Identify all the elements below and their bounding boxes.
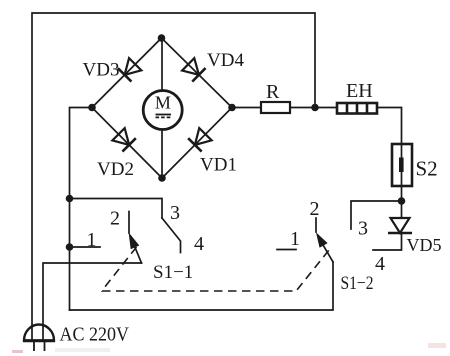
wire S1-1 terminal 3 feed — [70, 199, 163, 219]
switch S1-1 terminal 2 stub — [128, 212, 130, 234]
svg-text:M: M — [155, 93, 171, 113]
diode VD1 — [188, 128, 212, 152]
resistor R — [261, 102, 290, 113]
motor M1 circle — [143, 91, 182, 130]
motor underline dashed — [156, 116, 172, 118]
svg-text:VD3: VD3 — [83, 60, 120, 81]
wire bridge edge bottom-left — [92, 108, 162, 179]
plug prong right — [44, 341, 46, 351]
thermal switch S2 — [392, 144, 412, 186]
switch S1-1 arrowhead — [129, 234, 138, 249]
wire bridge edge top-right — [162, 38, 233, 108]
wire EH to right corner and down to S2 — [377, 108, 402, 145]
wire S1-2 terminal 3 branch — [351, 201, 402, 229]
svg-text:R: R — [266, 81, 280, 103]
svg-text:VD5: VD5 — [407, 235, 442, 255]
wire S1-1 terminal 1 stub — [70, 246, 101, 248]
svg-text:VD1: VD1 — [200, 155, 237, 176]
node left of bridge — [88, 104, 96, 112]
diode VD5 — [388, 218, 412, 233]
node bottom of bridge — [158, 174, 166, 182]
svg-text:4: 4 — [194, 233, 204, 255]
svg-text:3: 3 — [170, 202, 180, 224]
switch S1-1 arm — [132, 239, 142, 263]
plug AC dome — [24, 325, 54, 341]
svg-text:S1−1: S1−1 — [153, 262, 193, 283]
motor underline solid — [156, 114, 172, 116]
mechanical linkage dashed — [102, 247, 329, 291]
svg-text:3: 3 — [358, 218, 368, 240]
wire resistor to EH — [290, 107, 337, 109]
wire VD5 cathode to terminal 4 stub — [373, 233, 402, 250]
node left rail / terminal1 — [66, 243, 74, 251]
switch S1-2 arrowhead — [317, 234, 327, 247]
svg-text:4: 4 — [375, 253, 385, 275]
svg-text:1: 1 — [290, 228, 300, 250]
wire motor vertical bottom — [161, 130, 163, 179]
switch S1-2 terminal 1 stub — [277, 249, 296, 251]
plug prong left — [33, 341, 35, 351]
svg-text:2: 2 — [110, 208, 120, 230]
wire bridge edge bottom-right — [162, 108, 232, 179]
svg-text:1: 1 — [87, 229, 97, 251]
wire right node to resistor — [232, 107, 261, 109]
node right of bridge — [228, 104, 236, 112]
wire bridge edge top-left — [92, 38, 162, 108]
svg-text:EH: EH — [346, 80, 373, 102]
heater EH — [337, 103, 377, 114]
wire bottom rail — [70, 262, 334, 310]
node S2-VD5 junction — [398, 197, 406, 205]
svg-text:VD4: VD4 — [207, 50, 244, 71]
svg-text:VD2: VD2 — [97, 159, 134, 180]
switch S1-2 terminal 2 stub — [315, 218, 317, 232]
node R-EH junction — [311, 104, 319, 112]
switch S1-2 arm — [319, 238, 333, 262]
node top of bridge — [158, 34, 166, 42]
wire motor vertical top — [161, 38, 163, 91]
wire S1-1 pole — [43, 263, 142, 339]
wire through S2 to junction — [401, 144, 403, 218]
wire S1-1 contact 3 to 4 diagonal — [162, 218, 181, 253]
svg-text:2: 2 — [310, 198, 320, 220]
wire top border (left vertical + top horizontal + right drop) — [32, 13, 315, 339]
svg-text:AC 220V: AC 220V — [60, 324, 130, 346]
node left rail / terminal3 feed — [66, 195, 74, 203]
svg-text:S2: S2 — [416, 157, 438, 181]
diode VD3 — [118, 58, 142, 82]
svg-text:S1−2: S1−2 — [341, 273, 374, 294]
wire left node to left rail — [70, 108, 93, 311]
diode VD4 — [182, 58, 206, 82]
watermark smudge bottom — [55, 348, 110, 352]
diode VD2 — [112, 128, 136, 152]
